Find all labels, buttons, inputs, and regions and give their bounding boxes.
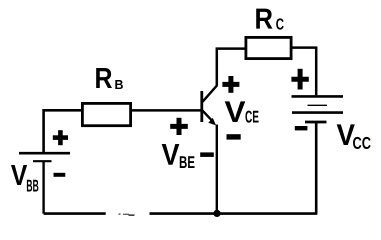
wire: RC right lead to battery VCC positive terminal	[291, 48, 316, 96]
minus sign VBE	[200, 152, 214, 157]
wire: bottom rail left segment	[44, 212, 106, 215]
wire: emitter down to bottom rail	[216, 125, 218, 214]
wire: RB left lead to battery VBB positive terminal	[44, 110, 82, 152]
label VBB	[11, 165, 38, 191]
label RB	[96, 68, 123, 89]
wire: battery VBB negative terminal down to bottom rail	[42, 161, 44, 213]
battery VBB plate 2 (short, negative)	[33, 160, 52, 162]
transistor Q1 emitter diagonal with arrow	[203, 111, 217, 126]
battery VBB plate 1 (long, positive)	[19, 152, 70, 155]
wire: bottom rail faded segment (scan artifact dots)	[119, 213, 135, 216]
plus sign VCE	[222, 76, 239, 93]
transistor Q1 collector diagonal	[203, 85, 218, 102]
label VCC	[337, 124, 371, 149]
minus sign VBB	[54, 173, 66, 177]
plus sign VBB	[53, 130, 68, 145]
label VBE	[162, 144, 195, 168]
plus sign VCC	[291, 69, 308, 90]
minus sign VCC	[295, 126, 308, 130]
minus sign VCE	[227, 134, 241, 139]
battery VCC plate 4 (short, negative)	[305, 121, 327, 124]
wire: base (RB right lead to transistor base)	[131, 109, 202, 112]
resistor RB	[82, 103, 130, 125]
battery VCC plate 1 (long, positive)	[292, 95, 344, 98]
battery VCC plate 2 (short)	[308, 104, 328, 106]
label VCE	[225, 101, 259, 122]
wire: bottom rail right segment	[150, 212, 318, 215]
label RC	[256, 9, 283, 30]
wire: battery VCC negative terminal down to bottom rail	[315, 122, 318, 214]
resistor RC	[246, 37, 291, 58]
transistor Q1 (NPN) base bar	[200, 91, 203, 122]
wire: collector (transistor to RC left lead)	[217, 49, 245, 86]
plus sign VBE	[170, 118, 188, 135]
battery VCC plate 3 (long)	[292, 111, 343, 114]
junction: emitter to bottom rail	[213, 210, 220, 217]
